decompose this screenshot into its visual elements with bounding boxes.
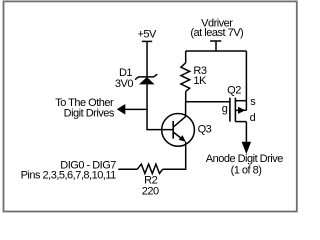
wire R2 to Q3 emitter: [163, 142, 186, 169]
mosfet Q2 drain stub: [235, 121, 246, 123]
wire D1 anode down to node A then to Q3 base: [147, 84, 173, 130]
transistor Q3 emitter arrowhead: [179, 135, 186, 142]
wire Vdriver stub: [215, 41, 217, 51]
svg-text:3V0: 3V0: [115, 78, 133, 90]
wire R3 to gate node: [185, 91, 187, 101]
power bar Vdriver: [210, 40, 221, 42]
svg-text:+5V: +5V: [138, 28, 158, 40]
wire top rail: [186, 50, 247, 52]
mosfet Q2 source stub: [235, 100, 246, 102]
mosfet Q2 gate bar: [229, 98, 231, 122]
svg-text:d: d: [250, 112, 256, 124]
resistor R2: [137, 164, 162, 173]
wire Q2 drain down: [245, 122, 247, 143]
wire gate node to Q2 gate: [186, 101, 230, 103]
wire +5V to D1 cathode: [146, 41, 148, 77]
mosfet Q2 body lead: [235, 109, 246, 111]
svg-text:1K: 1K: [193, 75, 207, 87]
svg-text:Pins 2,3,5,6,7,8,10,11: Pins 2,3,5,6,7,8,10,11: [21, 170, 117, 182]
resistor R3: [181, 63, 190, 92]
transistor Q3 emitter lead: [173, 132, 185, 141]
zener diode D1 cathode bar: [135, 74, 157, 79]
zener diode D1 anode triangle: [140, 78, 154, 85]
arrowhead to other digit drives: [117, 104, 126, 115]
wire node A branch to other digit drives: [125, 108, 147, 110]
wire rail to R3: [185, 51, 187, 63]
arrowhead anode digit drive: [242, 142, 252, 154]
svg-text:D1: D1: [119, 67, 132, 79]
svg-text:220: 220: [142, 186, 159, 198]
svg-text:Q3: Q3: [198, 123, 212, 135]
svg-text:(at least 7V): (at least 7V): [190, 27, 243, 39]
transistor Q3 circle: [162, 114, 195, 147]
svg-text:(1 of 8): (1 of 8): [231, 165, 262, 177]
svg-text:Anode Digit Drive: Anode Digit Drive: [206, 153, 283, 165]
svg-text:Q2: Q2: [227, 84, 241, 96]
svg-text:Digit Drives: Digit Drives: [64, 107, 115, 119]
transistor Q3 collector lead: [173, 117, 185, 128]
wire rail to Q2 source: [245, 51, 247, 110]
mosfet Q2 body arrowhead: [238, 107, 245, 114]
svg-text:g: g: [222, 103, 228, 115]
wire Q3 collector up to gate node: [185, 102, 187, 117]
transistor Q3 base bar: [172, 121, 174, 139]
power bar +5V: [142, 40, 152, 42]
wire DIG input to R2: [118, 168, 137, 170]
mosfet Q2 channel bar: [234, 98, 236, 122]
